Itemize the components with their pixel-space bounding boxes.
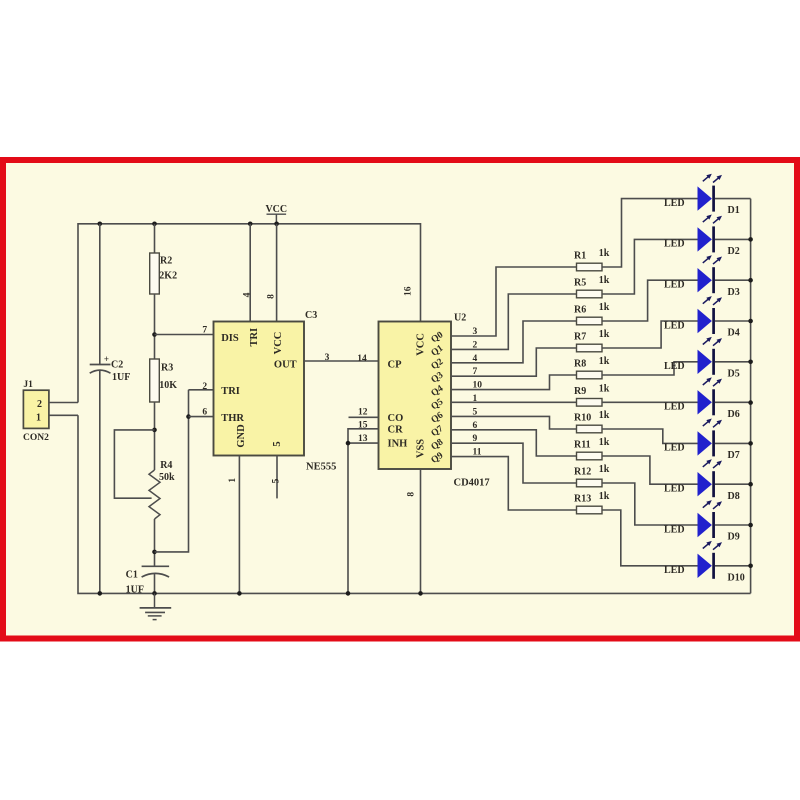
- capacitor C1 1UF: [126, 566, 170, 595]
- junction R4/C1 node: [152, 550, 157, 555]
- wire: Q3 to R7: [451, 348, 577, 376]
- wire: Q7 to R11: [451, 430, 577, 456]
- svg-text:14: 14: [357, 354, 367, 364]
- svg-text:R10: R10: [574, 413, 591, 424]
- svg-text:1k: 1k: [599, 384, 610, 395]
- svg-text:TRI: TRI: [221, 386, 240, 397]
- LED D2: [664, 215, 740, 258]
- junction INH at bottom rail: [346, 591, 351, 596]
- wire: R10 to LED D7: [602, 429, 698, 443]
- svg-text:1k: 1k: [599, 329, 610, 340]
- svg-text:D3: D3: [728, 287, 740, 298]
- svg-text:15: 15: [358, 420, 368, 430]
- svg-text:C3: C3: [305, 310, 317, 321]
- capacitor C2 1UF (polarized): [90, 354, 131, 383]
- svg-text:8: 8: [407, 492, 417, 497]
- resistor R6 1k: [574, 302, 610, 325]
- svg-text:R9: R9: [574, 386, 586, 397]
- wire: R5 to LED D2: [602, 239, 698, 294]
- resistor R10 1k: [574, 410, 610, 433]
- svg-text:D1: D1: [728, 205, 740, 216]
- wire: LED cathode bus: [750, 199, 752, 594]
- wire: Q9 to R13: [451, 457, 577, 510]
- VCC power symbol: [265, 204, 287, 224]
- wire: VSS pin 8 to ground rail: [420, 469, 422, 593]
- svg-text:R13: R13: [574, 494, 591, 505]
- wire: R8 to LED D5: [602, 362, 698, 375]
- wire: NE555 pin 2 TRI: [189, 389, 214, 391]
- svg-text:GND: GND: [236, 424, 247, 448]
- wire: LED D9 cathode to bus: [715, 524, 751, 526]
- svg-text:CP: CP: [388, 359, 403, 370]
- svg-text:D8: D8: [728, 491, 740, 502]
- svg-text:R3: R3: [161, 362, 173, 373]
- svg-text:CR: CR: [388, 424, 404, 435]
- wire: LED D1 cathode to bus: [715, 198, 751, 200]
- wire: NE555 pin 1 GND to rail: [238, 456, 240, 594]
- svg-text:CON2: CON2: [23, 433, 49, 443]
- wire: J1 pin 1 to ground column: [49, 414, 78, 416]
- wire: R9 to LED D6: [602, 401, 698, 403]
- svg-text:D7: D7: [728, 450, 740, 461]
- wire: C1 to ground rail: [154, 574, 156, 594]
- schematic background panel: [6, 163, 794, 636]
- svg-text:8: 8: [266, 294, 276, 299]
- svg-text:LED: LED: [664, 239, 685, 250]
- svg-text:D5: D5: [728, 368, 740, 379]
- red photo border frame: [3, 160, 797, 639]
- junction on top rail at C2 column: [98, 222, 103, 227]
- resistor R7 1k: [574, 329, 610, 352]
- svg-text:C2: C2: [111, 359, 123, 370]
- svg-text:D10: D10: [728, 572, 745, 583]
- wire: Q6 to R10: [451, 416, 577, 429]
- wire: Q1 to R5: [451, 294, 577, 349]
- junction THR tie: [186, 414, 191, 419]
- wire: top rail to R2: [154, 224, 156, 253]
- svg-text:CD4017: CD4017: [454, 478, 490, 489]
- wire: R2 to DIS node: [154, 294, 156, 359]
- junction bus at D3: [748, 278, 753, 283]
- svg-text:R7: R7: [574, 332, 586, 343]
- wire: CO pin 12 stub: [349, 416, 379, 418]
- wire: Q4 to R8: [451, 375, 577, 390]
- junction bus at D10: [748, 564, 753, 569]
- junction bus at D8: [748, 482, 753, 487]
- IC CD4017 U2 body: [379, 322, 452, 470]
- LED D4: [664, 296, 740, 339]
- svg-text:R11: R11: [574, 440, 591, 451]
- wire: Q2 to R6: [451, 321, 577, 363]
- svg-text:C1: C1: [126, 569, 138, 580]
- junction bus at D7: [748, 441, 753, 446]
- junction bus at D6: [748, 400, 753, 405]
- wire: LED D2 cathode to bus: [715, 238, 751, 240]
- wire: LED D5 cathode to bus: [715, 361, 751, 363]
- wire: NE555 pin 6 THR: [189, 416, 214, 418]
- wire: C2 lower lead: [99, 371, 101, 593]
- junction C1 at bottom rail: [152, 591, 157, 596]
- svg-text:7: 7: [202, 325, 207, 335]
- svg-text:LED: LED: [664, 198, 685, 209]
- svg-text:16: 16: [404, 286, 414, 296]
- svg-text:VCC: VCC: [273, 332, 284, 355]
- wire: C1 node to THR column: [155, 390, 189, 552]
- junction on top rail at NE555 pin 4: [248, 222, 253, 227]
- wire: Q0 to R1: [451, 267, 577, 336]
- svg-text:5: 5: [271, 478, 281, 483]
- wire: VCC top rail: [78, 224, 421, 403]
- svg-text:U2: U2: [454, 312, 466, 323]
- svg-text:R2: R2: [160, 255, 172, 266]
- LED D3: [664, 255, 740, 297]
- wire: R3 to R4 node: [154, 402, 156, 470]
- svg-text:CO: CO: [388, 413, 404, 424]
- connector J1 CON2: [23, 380, 49, 443]
- resistor R5 1k: [574, 275, 610, 298]
- svg-text:VSS: VSS: [416, 439, 427, 458]
- junction CR/INH tie: [346, 441, 351, 446]
- svg-text:1: 1: [36, 412, 41, 423]
- svg-text:1k: 1k: [599, 410, 610, 421]
- svg-text:LED: LED: [664, 280, 685, 291]
- wire: R4 to C1 node: [154, 519, 156, 566]
- svg-text:INH: INH: [388, 438, 408, 449]
- LED D5: [664, 337, 740, 380]
- junction DIS node: [152, 332, 157, 337]
- wire: R1 to LED D1: [602, 199, 698, 267]
- svg-text:OUT: OUT: [274, 359, 297, 370]
- svg-text:1k: 1k: [599, 356, 610, 367]
- junction on top rail at R2 column: [152, 222, 157, 227]
- svg-text:50k: 50k: [159, 472, 175, 483]
- svg-text:1k: 1k: [599, 275, 610, 286]
- wire: LED D4 cathode to bus: [715, 320, 751, 322]
- svg-text:12: 12: [358, 408, 368, 418]
- svg-text:R6: R6: [574, 305, 586, 316]
- LED D8: [664, 459, 740, 502]
- svg-text:10K: 10K: [159, 380, 177, 391]
- svg-text:D9: D9: [728, 532, 740, 543]
- svg-text:LED: LED: [664, 443, 685, 454]
- svg-text:THR: THR: [221, 413, 244, 424]
- svg-text:+: +: [104, 354, 109, 364]
- svg-text:R4: R4: [160, 460, 172, 471]
- wire: LED D3 cathode to bus: [715, 279, 751, 281]
- svg-text:6: 6: [202, 408, 207, 418]
- junction bus at D2: [748, 237, 753, 242]
- svg-text:LED: LED: [664, 320, 685, 331]
- wire: Q8 to R12: [451, 443, 577, 483]
- svg-text:LED: LED: [664, 524, 685, 535]
- wire: R7 to LED D4: [602, 321, 698, 348]
- svg-text:1UF: 1UF: [126, 584, 144, 595]
- svg-text:NE555: NE555: [306, 461, 336, 472]
- wire: C2 upper lead: [99, 224, 101, 365]
- wire: INH pin 13 to ground rail: [348, 443, 379, 593]
- svg-text:1k: 1k: [599, 302, 610, 313]
- svg-text:1UF: 1UF: [112, 372, 130, 383]
- wire: LED D6 cathode to bus: [715, 401, 751, 403]
- junction C2 at bottom rail: [98, 591, 103, 596]
- svg-text:DIS: DIS: [221, 333, 239, 344]
- svg-text:VCC: VCC: [265, 204, 287, 215]
- junction on top rail at NE555 pin 8: [274, 222, 279, 227]
- svg-text:R12: R12: [574, 467, 591, 478]
- wire: Q5 to R9: [451, 401, 577, 403]
- LED D10: [664, 541, 745, 584]
- wire: R6 to LED D3: [602, 280, 698, 321]
- resistor R3 10K: [150, 359, 178, 402]
- svg-text:R5: R5: [574, 278, 586, 289]
- svg-text:VCC: VCC: [416, 333, 427, 356]
- svg-text:4: 4: [243, 292, 253, 297]
- svg-text:TRI: TRI: [249, 328, 260, 347]
- wire: LED D7 cathode to bus: [715, 442, 751, 444]
- junction VSS at bottom rail: [418, 591, 423, 596]
- svg-text:5: 5: [272, 441, 283, 446]
- LED D1: [664, 174, 740, 217]
- svg-text:2K2: 2K2: [159, 270, 177, 281]
- wire: CR pin 15: [348, 429, 379, 443]
- resistor R11 1k: [574, 437, 610, 460]
- wire: R4 wiper loop: [114, 430, 154, 498]
- ground symbol: [140, 593, 172, 619]
- wire: ground bottom rail: [78, 415, 751, 593]
- svg-text:2: 2: [37, 399, 42, 410]
- svg-text:1k: 1k: [599, 491, 610, 502]
- svg-text:LED: LED: [664, 361, 685, 372]
- wire: OUT pin3 to CP pin14: [304, 360, 379, 362]
- LED D6: [664, 377, 740, 420]
- wire: R11 to LED D8: [602, 456, 698, 484]
- wire: NE555 pin 8 from rail: [276, 224, 278, 322]
- svg-text:R8: R8: [574, 359, 586, 370]
- junction bus at D4: [748, 319, 753, 324]
- wire: LED D8 cathode to bus: [715, 483, 751, 485]
- svg-text:LED: LED: [664, 402, 685, 413]
- wire: LED D10 cathode to bus: [715, 565, 751, 567]
- junction bus at D5: [748, 360, 753, 365]
- resistor R1 1k: [574, 248, 610, 271]
- svg-text:R1: R1: [574, 251, 586, 262]
- svg-text:1k: 1k: [599, 437, 610, 448]
- svg-text:J1: J1: [23, 380, 33, 390]
- resistor R13 1k: [574, 491, 610, 514]
- svg-text:3: 3: [325, 353, 330, 363]
- svg-text:1: 1: [228, 478, 238, 483]
- resistor R12 1k: [574, 464, 610, 487]
- LED D7: [664, 419, 740, 462]
- wire: R13 to LED D10: [602, 510, 698, 566]
- svg-text:1k: 1k: [599, 464, 610, 475]
- resistor R8 1k: [574, 356, 610, 379]
- svg-text:1k: 1k: [599, 248, 610, 259]
- junction bus at D9: [748, 523, 753, 528]
- svg-text:D2: D2: [728, 246, 740, 257]
- wire: R12 to LED D9: [602, 483, 698, 525]
- junction pin1 at bottom rail: [237, 591, 242, 596]
- resistor R9 1k: [574, 384, 610, 407]
- svg-text:D4: D4: [728, 328, 740, 339]
- wire: DIS node to NE555 pin 7: [155, 334, 214, 336]
- resistor R2 2K2: [150, 253, 177, 294]
- wire: NE555 pin 5 stub: [276, 456, 278, 499]
- potentiometer R4 50k (zigzag): [149, 460, 175, 519]
- wire: J1 pin 2 to VCC column: [49, 402, 78, 404]
- wire: NE555 pin 4 from rail: [249, 224, 251, 322]
- svg-text:13: 13: [358, 434, 368, 444]
- svg-text:LED: LED: [664, 484, 685, 495]
- op-amp: IC NE555 (C3) body: [214, 322, 305, 456]
- svg-text:LED: LED: [664, 565, 685, 576]
- LED D9: [664, 500, 740, 542]
- svg-text:D6: D6: [728, 409, 740, 420]
- svg-text:2: 2: [202, 382, 207, 392]
- junction R3/R4 node: [152, 428, 157, 433]
